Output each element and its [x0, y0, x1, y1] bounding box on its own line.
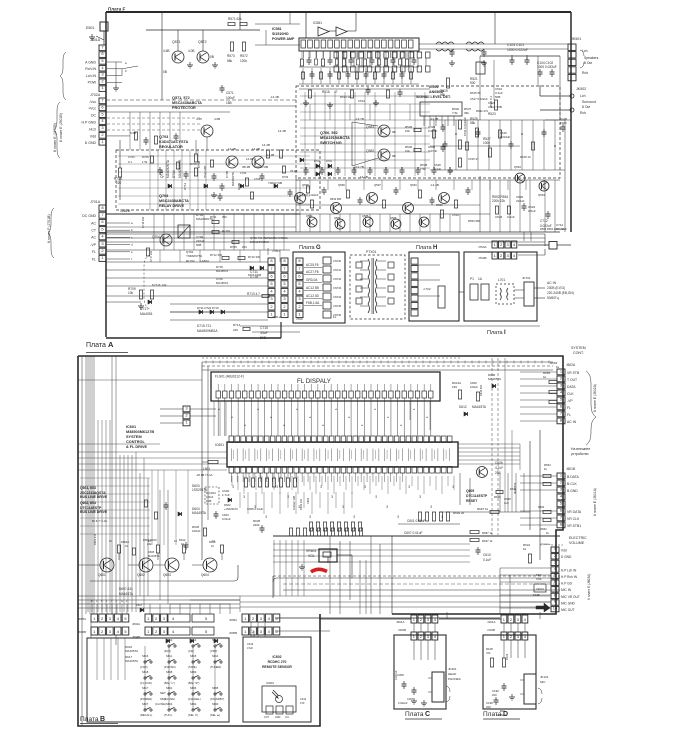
- svg-text:J703: J703: [296, 317, 303, 321]
- svg-text:1000 0.033uF: 1000 0.033uF: [537, 65, 557, 69]
- svg-text:C601 0.01uF: C601 0.01uF: [407, 519, 425, 523]
- svg-text:C308: C308: [397, 673, 404, 677]
- svg-text:J101B: J101B: [487, 628, 495, 632]
- svg-text:CONTROL: CONTROL: [126, 440, 145, 444]
- svg-text:CN734: CN734: [333, 295, 342, 299]
- svg-text:3: 3: [260, 616, 263, 621]
- svg-text:3: 3: [298, 296, 301, 301]
- svg-text:SYSTEM: SYSTEM: [571, 346, 586, 350]
- svg-text:IC601: IC601: [126, 425, 136, 429]
- svg-text:R713 4.7: R713 4.7: [247, 292, 260, 296]
- svg-text:0.027uF: 0.027uF: [394, 670, 398, 680]
- svg-text:PROTECTOR: PROTECTOR: [172, 106, 196, 110]
- svg-text:MA165TA: MA165TA: [513, 482, 517, 494]
- svg-text:3: 3: [260, 629, 263, 634]
- svg-text:4: 4: [524, 617, 527, 622]
- svg-text:D702: D702: [326, 160, 333, 163]
- svg-text:7: 7: [298, 266, 301, 271]
- svg-text:J604A: J604A: [132, 622, 140, 626]
- svg-text:R6: R6: [332, 494, 334, 498]
- svg-text:220: 220: [492, 693, 497, 697]
- svg-text:R572: R572: [240, 54, 248, 58]
- svg-text:470: 470: [300, 701, 305, 705]
- svg-text:6: 6: [387, 416, 390, 418]
- svg-text:MA165TA: MA165TA: [192, 511, 207, 515]
- svg-text:D719-721: D719-721: [197, 324, 211, 328]
- svg-text:H.P GND: H.P GND: [81, 120, 96, 124]
- svg-text:L701: L701: [498, 278, 505, 282]
- svg-text:5.6B: 5.6B: [130, 131, 136, 135]
- svg-text:VR DATA: VR DATA: [567, 510, 582, 514]
- svg-text:уровень: уровень: [540, 542, 551, 546]
- svg-text:R612: R612: [179, 538, 186, 542]
- svg-text:50/60Гц: 50/60Гц: [547, 296, 559, 300]
- svg-text:OUT: OUT: [264, 716, 270, 719]
- svg-text:CONT.: CONT.: [573, 351, 584, 355]
- svg-text:IC581: IC581: [313, 21, 322, 25]
- svg-text:Y6682N7TA: Y6682N7TA: [186, 254, 202, 258]
- svg-text:S615: S615: [190, 654, 197, 658]
- svg-text:S611: S611: [166, 654, 173, 658]
- svg-text:5: 5: [275, 629, 278, 634]
- svg-text:GND: GND: [275, 716, 281, 719]
- svg-text:3: 3: [517, 617, 520, 622]
- svg-text:CT: CT: [91, 229, 97, 233]
- svg-text:R687 1k: R687 1k: [482, 531, 493, 535]
- svg-text:IC602: IC602: [266, 681, 274, 685]
- svg-text:D605: D605: [148, 550, 155, 554]
- svg-text:(BAL "L"): (BAL "L"): [164, 681, 175, 685]
- svg-text:7300uF 50B: 7300uF 50B: [254, 165, 268, 169]
- svg-text:К плате Е (J470B): К плате Е (J470B): [53, 123, 57, 152]
- svg-text:J705-1: J705-1: [272, 249, 281, 253]
- svg-text:+1SS291TA: +1SS291TA: [224, 507, 238, 511]
- svg-text:(BAL "R"): (BAL "R"): [188, 681, 199, 685]
- svg-text:(STANDBY): (STANDBY): [210, 697, 224, 701]
- svg-text:Q595: Q595: [302, 183, 309, 187]
- svg-text:B.DATA: B.DATA: [567, 475, 579, 479]
- svg-text:0.1uF: 0.1uF: [483, 558, 491, 562]
- svg-text:100uF: 100uF: [206, 495, 214, 499]
- svg-text:5: 5: [205, 629, 208, 634]
- svg-text:(CLOSE): (CLOSE): [155, 702, 166, 706]
- svg-text:1: 1: [494, 253, 497, 258]
- svg-text:4.6B: 4.6B: [163, 49, 170, 53]
- svg-text:R518 10: R518 10: [520, 155, 531, 159]
- svg-text:CLK: CLK: [567, 392, 574, 396]
- svg-text:C511 0.0022uF: C511 0.0022uF: [463, 117, 467, 136]
- svg-text:IC592: IC592: [429, 85, 439, 89]
- svg-text:VR STB: VR STB: [567, 371, 580, 375]
- svg-text:4: 4: [298, 289, 301, 294]
- svg-text:C514: C514: [358, 99, 365, 103]
- svg-text:AN6564F: AN6564F: [429, 90, 445, 94]
- svg-text:S604: S604: [166, 702, 173, 706]
- svg-text:1: 1: [147, 629, 150, 634]
- svg-text:C606: C606: [495, 461, 503, 465]
- svg-text:14.4B: 14.4B: [278, 129, 286, 133]
- svg-text:Lch IN: Lch IN: [86, 74, 97, 78]
- svg-text:220: 220: [116, 181, 122, 185]
- svg-text:S614: S614: [212, 654, 219, 658]
- svg-text:4.0B: 4.0B: [188, 49, 195, 53]
- svg-text:4: 4: [117, 616, 120, 621]
- svg-text:D712: D712: [183, 182, 187, 190]
- svg-text:J702A: J702A: [90, 93, 101, 97]
- svg-text:Q597: Q597: [374, 183, 381, 187]
- svg-text:D612: D612: [459, 405, 467, 409]
- svg-text:SIGNAL LEVEL DET.: SIGNAL LEVEL DET.: [416, 95, 451, 99]
- svg-text:J602A: J602A: [566, 363, 576, 367]
- svg-text:3.3uF 50B: 3.3uF 50B: [488, 105, 502, 109]
- svg-text:J605A: J605A: [229, 618, 237, 622]
- svg-text:IC601: IC601: [215, 443, 224, 447]
- svg-text:БЛОКИРОВКИ: БЛОКИРОВКИ: [250, 240, 269, 244]
- svg-text:D(C)601: D(C)601: [206, 491, 216, 495]
- svg-text:PTX01: PTX01: [366, 250, 376, 254]
- svg-text:FL DISPALY: FL DISPALY: [297, 378, 331, 385]
- svg-text:S691: S691: [166, 686, 173, 690]
- svg-text:3: 3: [283, 296, 286, 301]
- svg-text:B.GND: B.GND: [567, 489, 578, 493]
- svg-text:6: 6: [426, 416, 429, 418]
- svg-text:Q585: Q585: [362, 214, 369, 218]
- svg-text:FLG01 (4BU0112-F): FLG01 (4BU0112-F): [215, 375, 244, 379]
- svg-text:CN735: CN735: [333, 304, 342, 308]
- svg-text:R697 1k: R697 1k: [477, 507, 489, 511]
- svg-text:1000uF 10B: 1000uF 10B: [292, 496, 296, 510]
- svg-text:1: 1: [244, 629, 247, 634]
- svg-text:1A: 1A: [478, 277, 483, 281]
- svg-text:8: 8: [270, 258, 273, 263]
- svg-text:MIC GND: MIC GND: [561, 601, 576, 605]
- svg-text:-VP: -VP: [567, 399, 573, 403]
- svg-text:H.P GD: H.P GD: [561, 582, 573, 586]
- svg-text:PHONES: PHONES: [448, 677, 461, 681]
- svg-text:5: 5: [298, 281, 301, 286]
- svg-text:D GND: D GND: [561, 555, 572, 559]
- svg-text:6: 6: [283, 273, 286, 278]
- svg-text:6: 6: [296, 408, 299, 410]
- svg-text:Surround: Surround: [582, 100, 596, 104]
- svg-text:F6B,1.6A: F6B,1.6A: [306, 301, 320, 305]
- svg-text:C711: C711: [250, 270, 258, 274]
- svg-text:T: T: [111, 599, 113, 603]
- svg-text:4: 4: [513, 242, 516, 247]
- svg-text:AC IN: AC IN: [547, 281, 557, 285]
- svg-text:0.1: 0.1: [128, 160, 132, 164]
- svg-text:1000: 1000: [560, 121, 567, 125]
- svg-text:220: 220: [233, 328, 238, 332]
- svg-text:3: 3: [270, 296, 273, 301]
- svg-text:KY716: KY716: [152, 283, 161, 287]
- svg-text:MSC2438ABCTA: MSC2438ABCTA: [159, 199, 189, 203]
- svg-text:MA165TA: MA165TA: [216, 281, 228, 285]
- svg-text:Плата: Плата: [483, 711, 502, 718]
- svg-text:(SEL ▼): (SEL ▼): [188, 713, 198, 717]
- svg-text:(X.LOUD): (X.LOUD): [140, 681, 152, 685]
- svg-text:x: x: [126, 600, 128, 603]
- svg-text:GR3,0A: GR3,0A: [306, 278, 318, 282]
- svg-text:3: 3: [109, 629, 112, 634]
- svg-text:Vdd: Vdd: [561, 549, 567, 553]
- svg-text:6: 6: [361, 424, 364, 426]
- svg-text:FL: FL: [333, 315, 337, 319]
- svg-text:Lch: Lch: [582, 49, 588, 53]
- svg-text:R609 R615: R609 R615: [143, 538, 157, 542]
- svg-text:50B: 50B: [260, 336, 267, 340]
- svg-text:J705-2: J705-2: [272, 315, 281, 319]
- svg-text:-14.4B: -14.4B: [266, 153, 274, 157]
- svg-text:220: 220: [486, 705, 491, 709]
- svg-text:120k: 120k: [240, 59, 247, 63]
- svg-text:HLD: HLD: [89, 127, 96, 131]
- svg-text:C103 C101: C103 C101: [507, 43, 524, 47]
- svg-text:R601 27k: R601 27k: [93, 533, 97, 545]
- svg-text:D602: D602: [224, 503, 231, 507]
- svg-text:D721 D720 D719: D721 D720 D719: [197, 306, 219, 310]
- svg-text:(TUNER): (TUNER): [210, 665, 221, 669]
- svg-text:S617: S617: [142, 686, 149, 690]
- svg-text:RL701: RL701: [222, 229, 231, 233]
- svg-text:R6: R6: [398, 514, 400, 518]
- svg-text:G: G: [121, 599, 123, 603]
- svg-text:2: 2: [101, 629, 104, 634]
- svg-text:R516: R516: [322, 90, 330, 94]
- svg-text:0B: 0B: [163, 70, 167, 74]
- svg-text:Vdd: Vdd: [90, 134, 96, 138]
- svg-text:C523: C523: [495, 215, 503, 219]
- svg-text:39k: 39k: [464, 111, 469, 115]
- svg-text:56k: 56k: [470, 121, 476, 125]
- svg-text:150: 150: [452, 385, 457, 389]
- svg-text:MA165TA: MA165TA: [488, 377, 501, 381]
- svg-text:MA4900MB1A: MA4900MB1A: [197, 329, 218, 333]
- svg-text:Q604: Q604: [201, 573, 209, 577]
- svg-text:POWER AMP: POWER AMP: [272, 37, 295, 41]
- svg-text:7: 7: [283, 266, 286, 271]
- svg-text:S693: S693: [212, 702, 219, 706]
- svg-text:К плате Е (J603A): К плате Е (J603A): [587, 574, 591, 600]
- svg-text:1: 1: [298, 311, 301, 316]
- svg-text:I: I: [504, 330, 506, 336]
- svg-text:(DAT): (DAT): [164, 649, 171, 653]
- svg-text:8 Ом: 8 Ом: [582, 105, 590, 109]
- svg-text:Плата: Плата: [416, 245, 433, 251]
- svg-text:10: 10: [553, 606, 558, 611]
- svg-text:Q603: Q603: [163, 573, 171, 577]
- svg-text:S616: S616: [142, 654, 149, 658]
- svg-text:Q584: Q584: [334, 216, 341, 220]
- svg-text:1: 1: [503, 617, 506, 622]
- svg-text:Q571, 572: Q571, 572: [172, 96, 190, 100]
- svg-text:SYSTEM: SYSTEM: [126, 435, 142, 439]
- svg-text:5: 5: [275, 616, 278, 621]
- svg-text:2: 2: [252, 616, 255, 621]
- svg-text:IC602: IC602: [272, 655, 281, 659]
- svg-text:7: 7: [270, 266, 273, 271]
- svg-text:Rch: Rch: [582, 71, 588, 75]
- svg-text:4: 4: [268, 629, 271, 634]
- svg-text:JK501: JK501: [571, 37, 581, 41]
- svg-text:0.07uF: 0.07uF: [428, 149, 438, 153]
- svg-text:устройство: устройство: [571, 452, 589, 456]
- svg-text:CN731: CN731: [333, 268, 342, 272]
- svg-text:A GND: A GND: [85, 60, 96, 64]
- svg-text:Speakers: Speakers: [584, 56, 599, 60]
- svg-text:VR101: VR101: [536, 587, 544, 591]
- svg-text:MA4082TA: MA4082TA: [231, 172, 235, 186]
- svg-text:4: 4: [270, 289, 273, 294]
- svg-text:AC12,5B: AC12,5B: [306, 286, 319, 290]
- svg-text:L601: L601: [203, 467, 210, 471]
- svg-text:MA165TA: MA165TA: [125, 659, 138, 663]
- svg-text:C607 0.01uF: C607 0.01uF: [404, 531, 422, 535]
- svg-text:R573: R573: [227, 54, 235, 58]
- svg-text:MA4082MTA: MA4082MTA: [178, 159, 182, 178]
- svg-text:J605B: J605B: [229, 631, 237, 635]
- svg-text:2: 2: [298, 304, 301, 309]
- svg-text:Q572: Q572: [198, 40, 207, 44]
- svg-text:MA4051: MA4051: [140, 312, 153, 316]
- svg-text:7: 7: [101, 212, 104, 217]
- svg-text:AC: AC: [91, 221, 96, 225]
- svg-text:1.5k: 1.5k: [142, 160, 148, 164]
- svg-text:MIC OUT: MIC OUT: [561, 608, 575, 612]
- svg-text:b: b: [125, 69, 127, 73]
- svg-text:CN733: CN733: [333, 286, 342, 290]
- svg-text:Q593: Q593: [514, 165, 521, 169]
- svg-text:0.01uF: 0.01uF: [222, 517, 231, 521]
- svg-text:DC GND: DC GND: [82, 214, 96, 218]
- svg-text:7.5k: 7.5k: [420, 167, 426, 171]
- svg-text:Q704: Q704: [152, 235, 160, 239]
- svg-text:RESET: RESET: [466, 499, 478, 503]
- svg-text:R6: R6: [277, 484, 279, 488]
- svg-text:4: 4: [101, 234, 104, 239]
- svg-text:R813 680: R813 680: [330, 197, 342, 201]
- svg-text:R514 10: R514 10: [340, 95, 351, 99]
- svg-text:R619 500: R619 500: [479, 384, 483, 396]
- svg-text:C: C: [425, 711, 430, 718]
- svg-text:R711: R711: [210, 215, 217, 219]
- svg-text:Плата: Плата: [405, 711, 424, 718]
- svg-text:R109: R109: [505, 653, 509, 660]
- svg-text:A: A: [108, 340, 114, 349]
- svg-text:C612: C612: [300, 697, 307, 701]
- svg-text:J764A: J764A: [478, 245, 487, 249]
- svg-text:0.07uF: 0.07uF: [428, 129, 438, 133]
- svg-text:6: 6: [374, 408, 377, 410]
- svg-text:0B 4B: 0B 4B: [242, 165, 250, 169]
- svg-text:10k: 10k: [128, 291, 134, 295]
- svg-text:1k: 1k: [523, 547, 527, 551]
- svg-text:MA165TA: MA165TA: [472, 405, 487, 409]
- svg-text:5: 5: [101, 226, 104, 231]
- svg-text:H.P Rch IN: H.P Rch IN: [561, 575, 578, 579]
- svg-text:R709: R709: [230, 245, 237, 249]
- svg-text:VR CLK: VR CLK: [567, 517, 580, 521]
- svg-text:R705: R705: [142, 155, 149, 159]
- svg-text:0.022uF: 0.022uF: [398, 701, 408, 705]
- svg-text:Плата: Плата: [299, 245, 316, 251]
- svg-text:ELECTRIC: ELECTRIC: [569, 536, 587, 540]
- svg-text:5: 5: [124, 629, 127, 634]
- svg-text:R660: R660: [538, 505, 545, 509]
- svg-text:(POWER): (POWER): [140, 697, 152, 701]
- svg-text:MA165TA: MA165TA: [216, 269, 228, 273]
- svg-text:REGULATOR: REGULATOR: [159, 145, 183, 149]
- svg-text:7300uF 50B: 7300uF 50B: [268, 181, 282, 185]
- svg-text:C613: C613: [247, 642, 254, 646]
- svg-text:22k: 22k: [147, 542, 152, 546]
- svg-text:2: 2: [252, 629, 255, 634]
- svg-text:RELAY DRIVE: RELAY DRIVE: [159, 204, 185, 208]
- svg-text:2: 2: [270, 304, 273, 309]
- svg-text:J764B: J764B: [478, 256, 487, 260]
- svg-text:12B: 12B: [124, 209, 131, 213]
- svg-text:8 Ом: 8 Ом: [584, 61, 592, 65]
- svg-text:2: 2: [283, 304, 286, 309]
- svg-text:7.5k: 7.5k: [452, 111, 458, 115]
- svg-text:6: 6: [257, 408, 260, 410]
- svg-text:(TAPE): (TAPE): [188, 665, 197, 669]
- svg-text:1: 1: [147, 616, 150, 621]
- svg-text:R523: R523: [488, 112, 496, 116]
- svg-text:10k: 10k: [405, 149, 410, 153]
- svg-text:Q704: Q704: [159, 194, 169, 198]
- svg-text:2: 2: [101, 616, 104, 621]
- svg-text:LA804: LA804: [200, 259, 209, 263]
- svg-text:8: 8: [298, 258, 301, 263]
- svg-text:P1: P1: [470, 277, 474, 281]
- svg-text:-13.7B: -13.7B: [355, 165, 364, 169]
- svg-text:C515 47: C515 47: [468, 157, 479, 161]
- svg-text:0.022uF: 0.022uF: [500, 135, 511, 139]
- svg-text:MA165TA: MA165TA: [125, 649, 138, 653]
- svg-text:J301A: J301A: [396, 620, 405, 624]
- svg-text:10k: 10k: [162, 283, 167, 287]
- svg-text:3: 3: [163, 616, 166, 621]
- svg-text:R542 27k: R542 27k: [476, 109, 489, 113]
- svg-text:4: 4: [268, 616, 271, 621]
- svg-text:1: 1: [93, 616, 96, 621]
- svg-text:10: 10: [174, 539, 177, 543]
- svg-text:50B: 50B: [495, 95, 500, 99]
- svg-text:6: 6: [309, 416, 312, 418]
- svg-text:b: b: [131, 228, 133, 232]
- svg-text:R515 56: R515 56: [470, 91, 481, 95]
- svg-text:3: 3: [163, 629, 166, 634]
- svg-text:R6: R6: [420, 494, 422, 498]
- svg-text:C703: C703: [240, 171, 247, 175]
- svg-text:J-702: J-702: [423, 287, 431, 291]
- svg-text:FL: FL: [567, 406, 571, 410]
- svg-text:14.4B: 14.4B: [262, 143, 270, 147]
- svg-text:e: e: [131, 250, 133, 254]
- svg-text:R637 1k: R637 1k: [482, 539, 493, 543]
- svg-text:R716 230: R716 230: [141, 216, 145, 228]
- svg-text:1: 1: [93, 629, 96, 634]
- svg-text:1: 1: [244, 616, 247, 621]
- svg-text:JK701: JK701: [522, 276, 531, 280]
- svg-text:100uF: 100uF: [226, 96, 235, 100]
- svg-text:2: 2: [155, 616, 158, 621]
- svg-text:1: 1: [101, 255, 104, 260]
- svg-text:CN730: CN730: [333, 259, 342, 263]
- svg-text:2: 2: [510, 617, 513, 622]
- svg-text:C571: C571: [226, 91, 234, 95]
